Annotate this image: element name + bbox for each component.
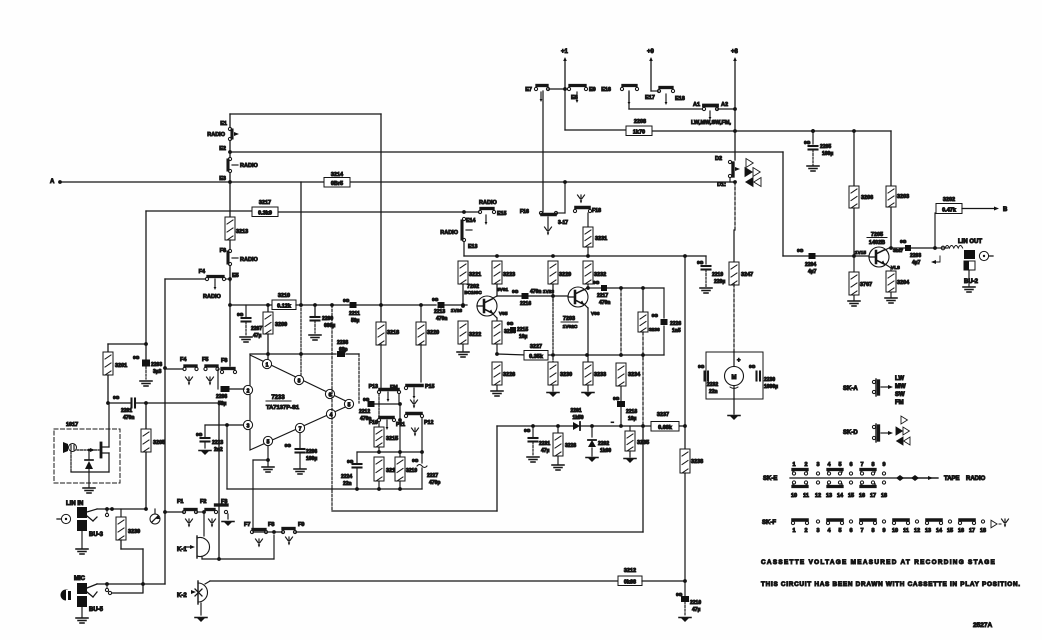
- svg-text:1k70: 1k70: [633, 129, 645, 135]
- wire pin1 up: [266, 352, 270, 356]
- svg-text:+9: +9: [647, 49, 655, 55]
- svg-text:470n: 470n: [123, 415, 134, 421]
- transistor 7203: [568, 287, 588, 307]
- wire feedback loop x332: [331, 305, 333, 511]
- svg-text:0G: 0G: [113, 395, 120, 401]
- svg-text:RADIO: RADIO: [203, 294, 221, 300]
- svg-text:15: 15: [947, 528, 953, 534]
- svg-text:8: 8: [871, 462, 874, 468]
- svg-text:LIN OUT: LIN OUT: [958, 239, 982, 245]
- svg-text:D2: D2: [715, 156, 722, 162]
- svg-text:1402B: 1402B: [869, 240, 885, 246]
- svg-text:3227: 3227: [530, 344, 542, 350]
- svg-text:2: 2: [804, 528, 807, 534]
- junction 3205 top: [144, 401, 148, 405]
- svg-text:0G: 0G: [593, 280, 600, 286]
- svg-text:E9: E9: [589, 87, 596, 93]
- svg-text:P11: P11: [396, 422, 405, 428]
- resistor 3201: [103, 352, 113, 375]
- svg-text:8: 8: [871, 528, 874, 534]
- op-amp pin 4: [326, 409, 335, 418]
- wire 7203 collector: [584, 287, 588, 290]
- wire 3227 line: [497, 354, 526, 355]
- resistor 3228: [557, 426, 559, 433]
- svg-text:MW: MW: [895, 384, 906, 390]
- svg-text:A2: A2: [721, 102, 728, 108]
- svg-text:RADIO: RADIO: [240, 163, 258, 169]
- svg-text:10: 10: [791, 493, 797, 499]
- svg-text:F4: F4: [199, 269, 206, 275]
- svg-text:5: 5: [838, 528, 841, 534]
- svg-text:3223: 3223: [503, 272, 515, 278]
- wire E8 column: [564, 89, 566, 130]
- svg-text:100µ: 100µ: [822, 151, 833, 157]
- wire left column x146: [145, 211, 147, 344]
- svg-text:68p: 68p: [339, 347, 348, 353]
- svg-text:MIC: MIC: [74, 576, 86, 582]
- svg-text:E14: E14: [466, 218, 475, 224]
- resistor 3229: [548, 261, 558, 284]
- svg-text:1V02C: 1V02C: [563, 324, 578, 330]
- svg-text:470n: 470n: [530, 289, 541, 295]
- svg-text:2215: 2215: [517, 327, 528, 333]
- svg-text:3206: 3206: [861, 195, 873, 201]
- wire 2217 line: [588, 287, 601, 289]
- ground 3230: [548, 392, 558, 397]
- svg-text:1: 1: [792, 528, 795, 534]
- svg-text:3222: 3222: [469, 332, 481, 338]
- icon play SK-D: [901, 416, 907, 424]
- svg-text:3215: 3215: [386, 436, 398, 442]
- jack LIN IN: [61, 514, 70, 523]
- node E3: [228, 180, 232, 184]
- svg-text:16: 16: [958, 528, 964, 534]
- svg-text:F18: F18: [592, 208, 601, 214]
- wire F9 line to x643: [295, 531, 643, 533]
- svg-text:LW,MW,SW,FM,: LW,MW,SW,FM,: [691, 120, 731, 126]
- ground 2203: [140, 380, 152, 382]
- ground motor: [729, 415, 739, 420]
- wire 7202 collector out: [493, 296, 497, 298]
- svg-text:12: 12: [815, 493, 821, 499]
- svg-text:2201: 2201: [121, 408, 132, 414]
- op-amp pin 8: [294, 375, 303, 384]
- motor box: [706, 352, 763, 399]
- svg-text:RADIO: RADIO: [966, 476, 986, 482]
- svg-text:F6: F6: [221, 358, 227, 364]
- ff icons: [745, 168, 752, 177]
- svg-text:D1:: D1:: [717, 182, 726, 188]
- svg-text:2213: 2213: [434, 309, 445, 315]
- svg-text:RADIO: RADIO: [440, 230, 458, 236]
- resistor 3209: [267, 305, 269, 312]
- svg-text:11: 11: [903, 528, 909, 534]
- wire 3217 line: [146, 210, 254, 212]
- ground 1017: [88, 472, 90, 487]
- svg-text:2224: 2224: [341, 474, 352, 480]
- wire 3220 to P15: [420, 344, 422, 382]
- svg-text:2203: 2203: [910, 253, 921, 259]
- ground 3233: [583, 392, 593, 397]
- svg-text:F1: F1: [177, 499, 183, 505]
- svg-text:F6: F6: [220, 248, 226, 254]
- svg-text:+: +: [737, 358, 741, 364]
- svg-text:3202: 3202: [943, 197, 955, 203]
- svg-text:4µ7: 4µ7: [912, 260, 921, 266]
- svg-text:RADIO: RADIO: [479, 200, 497, 206]
- ground 2219: [700, 287, 712, 289]
- svg-text:F16: F16: [520, 209, 529, 215]
- resistor 3223: [492, 261, 502, 284]
- svg-text:F4: F4: [180, 357, 187, 363]
- svg-text:0.12k: 0.12k: [277, 303, 292, 309]
- svg-text:2202: 2202: [598, 441, 609, 447]
- wire 1017 bottom: [70, 452, 72, 472]
- wire to 3201: [108, 343, 146, 345]
- prong F18: [580, 195, 582, 202]
- svg-text:16: 16: [859, 493, 865, 499]
- junction x463: [461, 303, 465, 307]
- svg-text:3213: 3213: [236, 229, 248, 235]
- capacitor 2211: [350, 302, 357, 308]
- wire x685 column: [684, 256, 686, 426]
- svg-text:2232: 2232: [707, 382, 718, 388]
- svg-text:3: 3: [816, 462, 819, 468]
- resistor 3234: [620, 288, 622, 355]
- svg-text:18: 18: [881, 493, 887, 499]
- svg-text:470n: 470n: [436, 316, 447, 322]
- svg-text:2527A: 2527A: [973, 622, 992, 629]
- resistor 3238: [684, 426, 686, 449]
- svg-text:10µ: 10µ: [519, 334, 528, 340]
- prong F2: [211, 519, 213, 526]
- icon ff SK-D: [896, 427, 902, 435]
- svg-text:0G: 0G: [285, 443, 292, 449]
- svg-text:E16: E16: [601, 87, 611, 93]
- resistor 3220: [420, 305, 422, 322]
- switch P15: [407, 384, 422, 388]
- wire E3 line toward D1: [230, 181, 326, 183]
- svg-text:F5: F5: [202, 357, 208, 363]
- svg-text:12: 12: [914, 528, 920, 534]
- junction x301: [299, 303, 303, 307]
- svg-text:E2: E2: [219, 146, 226, 152]
- svg-text:14: 14: [837, 493, 844, 499]
- svg-text:BU-2: BU-2: [964, 279, 979, 285]
- wire 7205 emitter: [885, 264, 891, 268]
- ground 2205: [807, 165, 819, 167]
- svg-text:3: 3: [816, 528, 819, 534]
- svg-text:9: 9: [882, 462, 885, 468]
- contact below LIN IN: [105, 513, 108, 516]
- svg-text:100µ: 100µ: [306, 456, 317, 462]
- svg-text:E1: E1: [220, 121, 227, 127]
- resistor 3231: [583, 227, 593, 247]
- wire corner x497: [496, 426, 498, 511]
- icon SK-F play: [991, 520, 997, 528]
- svg-text:2218: 2218: [626, 409, 637, 415]
- svg-text:BC109C: BC109C: [464, 290, 482, 295]
- svg-text:3209: 3209: [275, 322, 287, 328]
- svg-text:7: 7: [860, 528, 863, 534]
- svg-text:2205: 2205: [820, 144, 831, 150]
- resistor 3224: [492, 321, 502, 344]
- svg-text:3230: 3230: [560, 372, 572, 378]
- op-amp pin 5: [263, 436, 272, 445]
- svg-text:3232: 3232: [594, 272, 606, 278]
- wire 2201 to K-1 area: [218, 403, 220, 559]
- svg-text:3707: 3707: [860, 282, 872, 288]
- wire F4 to left column: [165, 278, 205, 280]
- svg-text:E18: E18: [675, 96, 685, 102]
- svg-text:3210: 3210: [278, 293, 290, 299]
- svg-text:3V01: 3V01: [497, 287, 509, 293]
- svg-text:LW: LW: [895, 376, 904, 382]
- svg-text:3204: 3204: [897, 280, 910, 286]
- wire 3209 to pin1: [267, 334, 269, 361]
- wire vertical x381 to resistor 3218: [380, 305, 382, 322]
- capacitor 2207: [245, 305, 247, 317]
- wire A2 to +8 column: [717, 108, 735, 110]
- junction mic: [141, 582, 145, 586]
- wire F row: [165, 511, 184, 513]
- svg-text:A1: A1: [693, 102, 700, 108]
- svg-text:5: 5: [838, 462, 841, 468]
- resistor 3230: [548, 362, 558, 385]
- svg-text:3220: 3220: [427, 330, 439, 336]
- node main input column: [229, 114, 231, 127]
- node E2: [228, 150, 232, 154]
- ground BU-3: [81, 531, 83, 548]
- capacitor 2238: [337, 351, 345, 357]
- junction 2209 tap: [313, 303, 317, 307]
- svg-text:1k50: 1k50: [572, 415, 583, 421]
- svg-text:E13: E13: [468, 244, 477, 250]
- ground BU-5: [81, 607, 83, 617]
- svg-text:14: 14: [936, 528, 943, 534]
- svg-text:FM: FM: [895, 400, 904, 406]
- wire pin5 to F7: [253, 459, 268, 461]
- wire audio line y305: [296, 304, 350, 306]
- svg-text:9: 9: [882, 528, 885, 534]
- fet 1017: [77, 449, 99, 451]
- wire 3212 to x685: [642, 580, 685, 582]
- svg-text:2n2: 2n2: [214, 447, 223, 453]
- wire 2238 line: [250, 353, 336, 355]
- svg-text:6: 6: [849, 462, 852, 468]
- svg-text:0G: 0G: [512, 289, 519, 295]
- resistor 3236: [642, 288, 644, 312]
- svg-text:470n: 470n: [599, 300, 610, 306]
- svg-text:1V23: 1V23: [543, 289, 555, 295]
- svg-text:17: 17: [870, 493, 876, 499]
- svg-text:5: 5: [267, 440, 270, 446]
- node E5: [228, 277, 232, 281]
- emitter 7202 down: [493, 314, 497, 318]
- wire E5 down to 3210: [229, 281, 231, 366]
- svg-text:E5: E5: [232, 273, 239, 279]
- svg-text:2238: 2238: [337, 340, 348, 346]
- svg-text:1017: 1017: [66, 422, 78, 428]
- jack BU-2: [979, 251, 988, 260]
- svg-text:0G: 0G: [507, 321, 514, 327]
- svg-text:P13: P13: [369, 384, 378, 390]
- wire MIC second contact: [108, 591, 111, 594]
- svg-text:47µ: 47µ: [692, 607, 701, 613]
- svg-text:E17: E17: [645, 95, 655, 101]
- svg-text:VL8: VL8: [891, 265, 900, 271]
- svg-text:3234: 3234: [628, 372, 641, 378]
- capacitor 2218b: [620, 386, 622, 402]
- svg-text:4µ7: 4µ7: [808, 269, 817, 275]
- radio supply line y130: [565, 129, 628, 131]
- svg-text:+1: +1: [561, 49, 569, 55]
- svg-text:F8: F8: [268, 522, 274, 528]
- mic element 1017: [63, 442, 68, 453]
- svg-text:P12: P12: [424, 420, 433, 426]
- wire rail corner to 2219: [705, 256, 707, 264]
- svg-text:7233: 7233: [271, 395, 285, 401]
- svg-text:3231: 3231: [595, 236, 607, 242]
- ground 3226: [491, 390, 503, 392]
- svg-text:47µ: 47µ: [253, 333, 262, 339]
- wire 3239 down: [120, 540, 122, 549]
- svg-text:7: 7: [299, 427, 302, 433]
- svg-text:0G: 0G: [343, 298, 350, 304]
- rew icons: [746, 178, 753, 187]
- svg-text:6: 6: [329, 393, 332, 399]
- play icons: [746, 159, 753, 168]
- ground arrow F16: [547, 217, 549, 226]
- svg-text:2208: 2208: [216, 394, 227, 400]
- svg-text:0G: 0G: [524, 428, 531, 434]
- wire E16 down: [628, 91, 630, 109]
- switch RADIO E13: [462, 217, 465, 220]
- contact LIN OUT: [941, 246, 945, 250]
- svg-text:3219: 3219: [406, 468, 417, 474]
- ground F3: [227, 514, 229, 519]
- wire 3215 down: [378, 447, 380, 452]
- svg-text:2217: 2217: [597, 293, 608, 299]
- svg-text:0G: 0G: [797, 248, 804, 254]
- svg-text:2219: 2219: [712, 272, 723, 278]
- svg-text:2207: 2207: [251, 326, 262, 332]
- svg-text:2226: 2226: [670, 321, 681, 327]
- wire pin5 down: [267, 446, 269, 466]
- wire F2 to K-1: [203, 512, 205, 536]
- svg-text:13: 13: [826, 493, 832, 499]
- svg-text:1V26: 1V26: [451, 308, 463, 314]
- ground 2202: [587, 457, 597, 462]
- svg-text:F9: F9: [298, 522, 304, 528]
- switch P12: [407, 412, 421, 416]
- ground 2210: [680, 617, 690, 622]
- svg-text:3247: 3247: [741, 272, 753, 278]
- op-amp pin 6: [325, 389, 334, 398]
- svg-text:8: 8: [298, 379, 301, 385]
- svg-text:3-17: 3-17: [558, 220, 568, 226]
- svg-text:3: 3: [247, 424, 250, 430]
- wire E3 column to 3213: [229, 182, 231, 217]
- svg-text:10: 10: [892, 528, 898, 534]
- svg-text:3228: 3228: [565, 443, 576, 449]
- svg-text:RADIO: RADIO: [240, 257, 258, 263]
- switch F18: [573, 209, 576, 212]
- capacitor 2226: [663, 288, 665, 318]
- diode 1017: [88, 450, 90, 459]
- wire motor ground: [733, 399, 735, 414]
- jack prongs BU-5: [87, 584, 97, 588]
- prong F1: [188, 519, 190, 526]
- svg-text:0G: 0G: [412, 458, 419, 464]
- svg-text:0.47k: 0.47k: [942, 207, 957, 213]
- svg-text:3218: 3218: [387, 330, 399, 336]
- svg-text:F2: F2: [200, 499, 206, 505]
- svg-text:BU-3: BU-3: [89, 532, 104, 538]
- svg-text:2212: 2212: [359, 409, 370, 415]
- op-amp pin 1: [262, 359, 271, 368]
- svg-text:7203: 7203: [563, 316, 575, 322]
- wire 3247 to motor: [733, 284, 735, 352]
- svg-text:SK-A: SK-A: [843, 386, 858, 392]
- wire F18 to 3231: [587, 213, 589, 227]
- wire 7203 emitter: [584, 304, 588, 308]
- prong F7: [258, 539, 260, 546]
- wire LIN IN node: [97, 508, 146, 510]
- svg-text:0G: 0G: [698, 364, 705, 370]
- jack prongs BU-3: [87, 509, 97, 512]
- svg-text:50µ: 50µ: [218, 401, 227, 407]
- svg-text:+8: +8: [731, 49, 739, 55]
- svg-text:18: 18: [980, 528, 986, 534]
- resistor 3239: [120, 509, 122, 517]
- svg-text:2231: 2231: [539, 441, 550, 447]
- svg-text:7: 7: [860, 462, 863, 468]
- ground 3228: [552, 464, 564, 466]
- microphone symbol: [61, 590, 72, 601]
- svg-text:50µ: 50µ: [351, 318, 360, 324]
- svg-text:0.68k: 0.68k: [658, 425, 673, 431]
- resistor 3203: [890, 131, 892, 186]
- resistor 3226: [492, 362, 502, 385]
- resistor 3233: [583, 362, 593, 385]
- svg-text:F7: F7: [244, 522, 250, 528]
- motor M: [725, 367, 744, 386]
- resistor 3232: [583, 261, 593, 284]
- capacitor 2215: [510, 327, 516, 333]
- svg-text:3203: 3203: [897, 194, 909, 200]
- svg-text:3212: 3212: [624, 568, 636, 574]
- svg-text:2: 2: [247, 389, 250, 395]
- capacitor 2210: [684, 581, 686, 597]
- svg-text:0.3k9: 0.3k9: [258, 210, 272, 216]
- wire F16 right to y182: [556, 212, 565, 214]
- svg-text:CASSETTE VOLTAGE MEASURED A: CASSETTE VOLTAGE MEASURED AT RECORDING S…: [761, 559, 996, 566]
- svg-text:0.35k: 0.35k: [529, 354, 544, 360]
- svg-text:M: M: [732, 375, 737, 381]
- svg-text:3221: 3221: [469, 272, 481, 278]
- svg-text:K-1: K-1: [177, 547, 187, 553]
- prong F8: [288, 537, 290, 544]
- wire to 3202: [934, 213, 936, 248]
- svg-text:2: 2: [804, 462, 807, 468]
- svg-text:3236: 3236: [649, 327, 660, 333]
- resistor 3213: [225, 217, 235, 240]
- node D1: [729, 178, 731, 182]
- svg-text:3µ3: 3µ3: [153, 369, 162, 375]
- svg-text:3233: 3233: [594, 372, 606, 378]
- resistor 3219: [399, 452, 401, 457]
